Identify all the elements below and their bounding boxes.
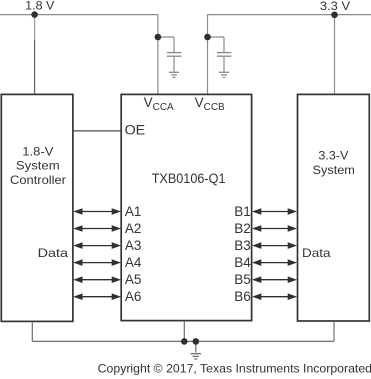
svg-text:B2: B2 bbox=[234, 221, 251, 236]
svg-text:B4: B4 bbox=[234, 255, 251, 270]
svg-text:B1: B1 bbox=[234, 204, 251, 219]
svg-text:Copyright © 2017, Texas Instru: Copyright © 2017, Texas Instruments Inco… bbox=[98, 361, 371, 375]
svg-text:1.8-V: 1.8-V bbox=[22, 144, 53, 158]
svg-text:Data: Data bbox=[38, 246, 69, 260]
svg-text:Data: Data bbox=[302, 246, 331, 260]
svg-text:3.3 V: 3.3 V bbox=[320, 0, 350, 13]
svg-text:A6: A6 bbox=[125, 289, 142, 304]
svg-text:1.8 V: 1.8 V bbox=[25, 0, 54, 12]
svg-text:A5: A5 bbox=[125, 272, 142, 287]
svg-text:A1: A1 bbox=[125, 204, 142, 219]
svg-text:3.3-V: 3.3-V bbox=[318, 149, 348, 163]
svg-text:System: System bbox=[313, 163, 355, 177]
svg-text:TXB0106-Q1: TXB0106-Q1 bbox=[152, 171, 226, 186]
svg-text:A3: A3 bbox=[125, 238, 142, 253]
svg-text:Controller: Controller bbox=[10, 173, 66, 187]
svg-text:B5: B5 bbox=[234, 272, 251, 287]
svg-text:A2: A2 bbox=[125, 221, 142, 236]
svg-text:B3: B3 bbox=[234, 238, 251, 253]
svg-text:System: System bbox=[16, 159, 60, 173]
svg-text:A4: A4 bbox=[125, 255, 142, 270]
svg-text:OE: OE bbox=[125, 122, 146, 137]
svg-text:B6: B6 bbox=[234, 289, 251, 304]
